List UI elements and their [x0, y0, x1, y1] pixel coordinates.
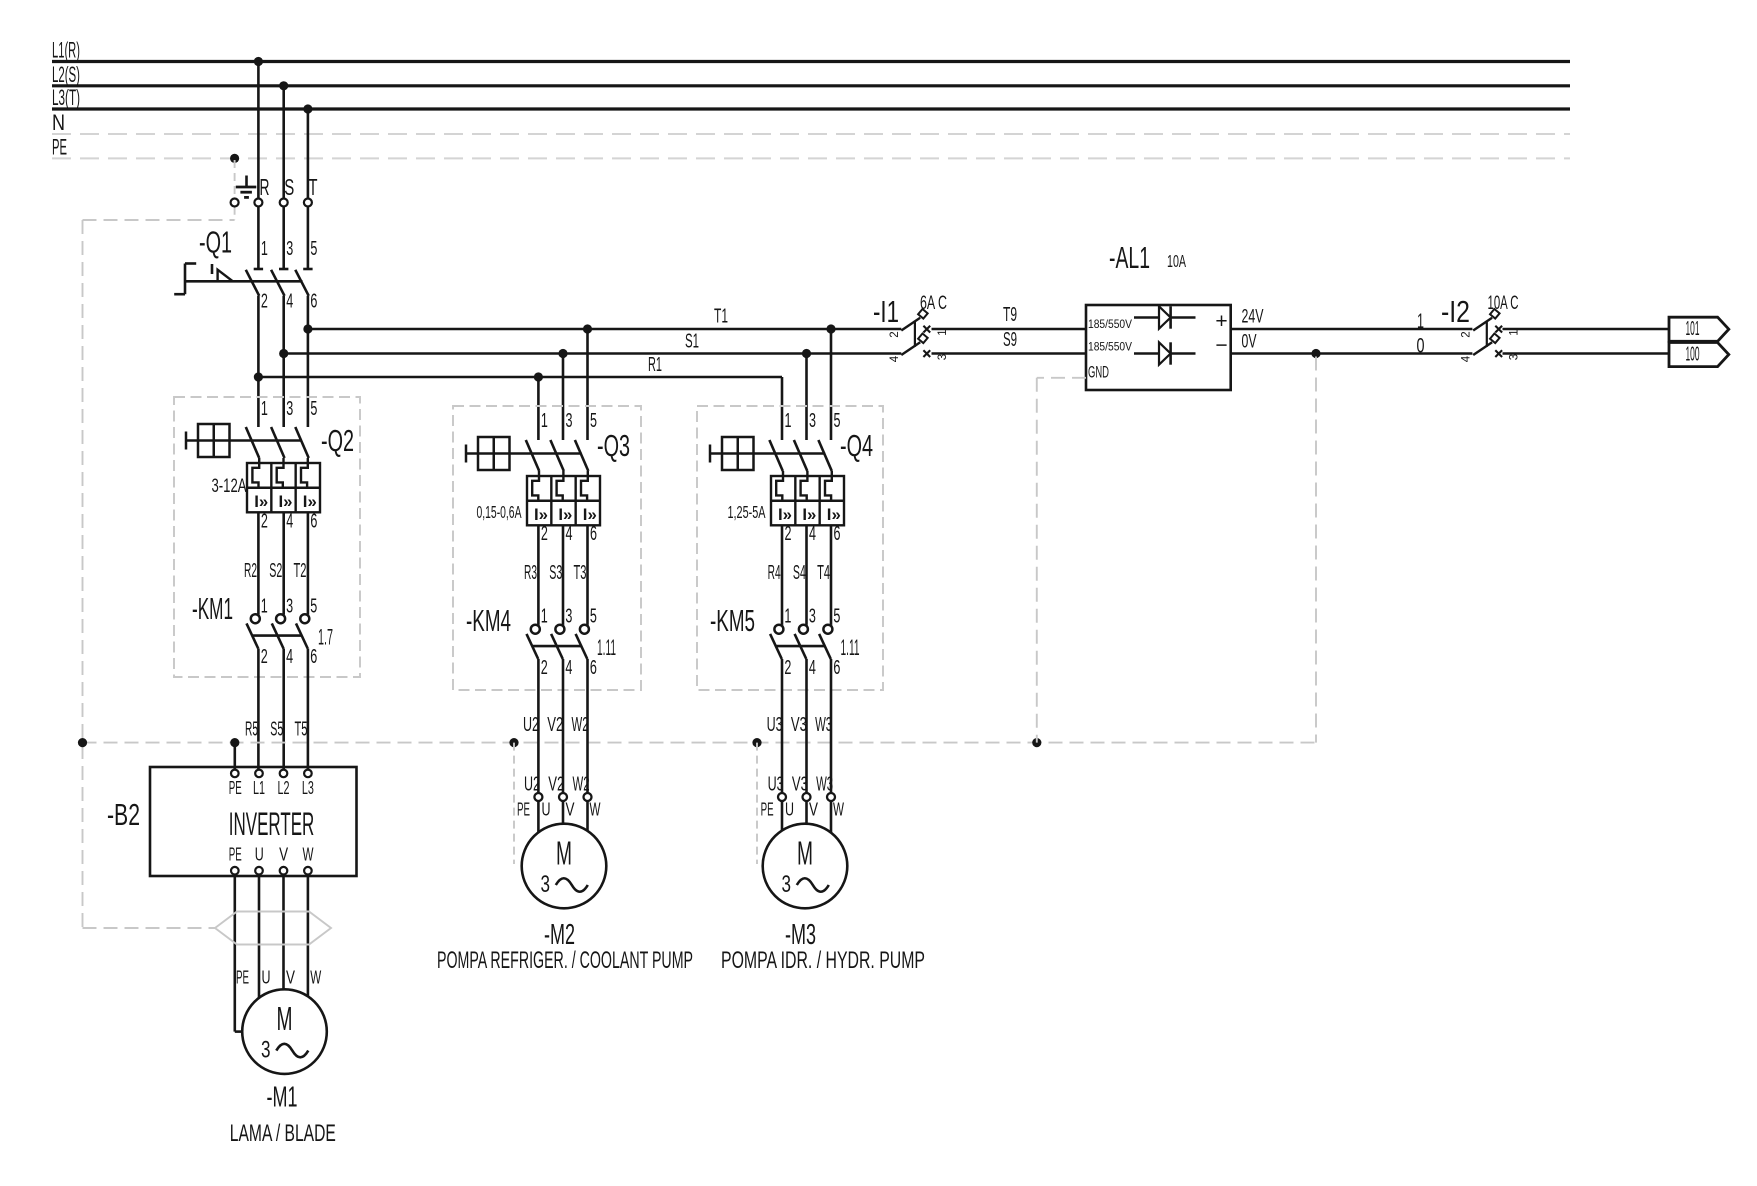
svg-text:1: 1 — [541, 606, 548, 628]
node T1 — [303, 324, 312, 333]
wire 24V — [1231, 307, 1473, 334]
breaker Q1 handle — [174, 264, 196, 295]
svg-text:I»: I» — [778, 505, 792, 524]
svg-text:U3: U3 — [767, 714, 783, 736]
svg-text:L3(T): L3(T) — [52, 85, 80, 110]
wire Q1.4 down — [282, 296, 285, 427]
breaker Q2 actuator link — [186, 439, 302, 441]
contactor KM5 pole 1 — [770, 625, 783, 659]
svg-text:3-12A: 3-12A — [212, 476, 247, 497]
dashed enclosure Q4 group — [697, 406, 883, 690]
power supply AL1 label — [1109, 240, 1186, 275]
breaker Q3 thermal overload block — [527, 476, 600, 525]
terminal S — [280, 174, 295, 207]
node PE left border — [78, 738, 87, 747]
svg-text:I»: I» — [303, 492, 317, 511]
svg-text:L3: L3 — [302, 778, 314, 798]
wire M3 V below — [805, 801, 808, 823]
svg-text:2: 2 — [261, 646, 268, 668]
ground — [236, 176, 256, 198]
breaker Q3 pole blade 1 — [526, 440, 539, 471]
switch I2 pole 2 — [1473, 334, 1502, 357]
breaker Q1 actuator link — [185, 280, 303, 283]
motor M1 — [242, 989, 327, 1074]
svg-text:2: 2 — [541, 657, 548, 679]
svg-text:4: 4 — [1461, 355, 1473, 362]
svg-text:V: V — [279, 845, 288, 865]
inverter B2 box — [150, 767, 357, 876]
svg-text:L1: L1 — [253, 778, 265, 798]
M3 terminals — [778, 793, 835, 801]
terminal R — [254, 174, 269, 207]
svg-text:10A: 10A — [1167, 251, 1186, 271]
breaker Q1 pole 2 — [271, 269, 288, 296]
breaker Q1 pin labels 2 4 6 — [261, 291, 318, 313]
breaker Q2 thermal overload block — [247, 463, 320, 512]
breaker Q4 heater element 3 — [825, 471, 832, 501]
svg-text:I»: I» — [558, 505, 572, 524]
switch I2 pole 1 — [1473, 309, 1502, 332]
contactor KM1 pole 1 — [247, 614, 260, 648]
node PE tap — [230, 154, 239, 163]
motor M3 — [763, 824, 848, 909]
svg-text:-KM1: -KM1 — [192, 591, 233, 626]
node PE M2 — [509, 738, 518, 747]
svg-text:V: V — [809, 800, 818, 820]
svg-text:24V: 24V — [1242, 307, 1264, 328]
svg-text:2: 2 — [785, 523, 792, 545]
svg-text:V2: V2 — [547, 714, 563, 736]
wire V3 — [791, 659, 808, 796]
wire Q1.6 down — [307, 296, 310, 427]
svg-text:0V: 0V — [1242, 332, 1257, 353]
cable shield symbol — [215, 912, 331, 945]
svg-text:U2: U2 — [523, 714, 539, 736]
svg-text:U: U — [785, 800, 794, 820]
svg-text:PE: PE — [229, 778, 242, 798]
breaker Q4 heater element 1 — [776, 471, 783, 501]
svg-text:I»: I» — [254, 492, 268, 511]
node PE AL1 — [1032, 738, 1041, 747]
svg-text:5: 5 — [310, 398, 317, 420]
breaker Q4 thermal overload block — [771, 476, 844, 525]
bus L3(T) — [52, 85, 1570, 110]
svg-text:3: 3 — [261, 1037, 271, 1064]
diode D1 — [1134, 306, 1196, 328]
breaker Q1 pole 1 — [246, 269, 263, 296]
breaker Q4 pin labels 2 4 6 — [785, 523, 841, 545]
breaker Q1 pin labels 1 3 5 — [261, 238, 318, 260]
wire R drop — [257, 62, 260, 270]
svg-text:W2: W2 — [572, 714, 589, 736]
svg-text:5: 5 — [310, 238, 317, 260]
contactor KM5 pole 2 — [795, 625, 808, 659]
wire R3 — [524, 525, 538, 625]
contactor KM5 pin labels 2 4 6 — [784, 657, 840, 679]
svg-text:1.11: 1.11 — [841, 635, 860, 660]
node L2 tap — [279, 81, 288, 90]
wire Q3.5 drop — [586, 329, 589, 440]
svg-text:3: 3 — [565, 606, 572, 628]
svg-text:I»: I» — [534, 505, 548, 524]
wire U3 — [767, 659, 784, 796]
wire PE spine dashed — [83, 742, 1317, 744]
svg-text:2: 2 — [889, 331, 901, 337]
svg-text:3: 3 — [286, 595, 293, 617]
svg-text:V: V — [566, 800, 575, 820]
svg-text:6: 6 — [590, 523, 597, 545]
svg-text:-KM5: -KM5 — [710, 603, 755, 638]
wire M3 PE dashed — [756, 743, 758, 864]
AL1 polarity labels — [1215, 310, 1227, 357]
wire Q3.3 drop — [562, 354, 565, 441]
breaker Q2 pole blade 1 — [246, 427, 259, 458]
wire I2 to arrow 100 — [1503, 352, 1670, 355]
wire T4 — [817, 525, 831, 625]
wire T drop — [307, 109, 310, 269]
wire W3 — [815, 659, 833, 796]
wire R4 — [768, 525, 782, 625]
svg-text:1: 1 — [261, 595, 268, 617]
svg-text:T3: T3 — [574, 562, 587, 584]
svg-text:T4: T4 — [817, 562, 830, 584]
svg-text:S9: S9 — [1003, 329, 1017, 351]
motor M2 — [522, 824, 607, 909]
svg-text:PE: PE — [52, 134, 67, 159]
svg-text:V3: V3 — [791, 714, 807, 736]
svg-text:-B2: -B2 — [107, 797, 140, 832]
power supply AL1 box — [1086, 305, 1231, 390]
M2 terminal labels PE U V W — [517, 800, 601, 820]
node PE M3 — [752, 738, 761, 747]
breaker Q4 pole blade 2 — [794, 440, 807, 471]
node Q4.5 tap — [826, 324, 835, 333]
svg-text:S3: S3 — [549, 562, 562, 584]
wire S drop — [282, 86, 285, 269]
breaker Q4 handle box — [710, 437, 754, 470]
contactor KM4 pole 2 — [551, 625, 564, 659]
breaker Q2 pole blade 2 — [271, 427, 284, 458]
svg-text:V: V — [286, 968, 295, 988]
breaker Q3 heater element 2 — [557, 471, 564, 501]
breaker Q3 pin labels 1 3 5 — [541, 410, 597, 432]
node L3 tap — [303, 104, 312, 113]
svg-text:3: 3 — [782, 871, 792, 898]
svg-text:-AL1: -AL1 — [1109, 240, 1150, 275]
svg-text:1: 1 — [1417, 310, 1424, 333]
M1 wire labels PE U V W — [236, 968, 321, 988]
node Q3.3 tap — [558, 349, 567, 358]
breaker Q3 pole blade 2 — [550, 440, 563, 471]
svg-text:1,25-5A: 1,25-5A — [728, 502, 766, 522]
svg-text:POMPA IDR. / HYDR. PUMP: POMPA IDR. / HYDR. PUMP — [721, 947, 925, 974]
breaker Q4 actuator link — [710, 452, 825, 454]
svg-text:1.11: 1.11 — [597, 635, 616, 660]
svg-text:5: 5 — [833, 606, 840, 628]
switch I1 pole 2 — [901, 334, 930, 357]
wire PE dashed left border down — [82, 220, 84, 928]
wire M2 V below — [562, 801, 565, 823]
svg-text:PE: PE — [229, 845, 242, 865]
wire M1 PE — [235, 875, 243, 1032]
svg-text:6: 6 — [590, 657, 597, 679]
svg-text:2: 2 — [261, 291, 268, 313]
switch I1 mechanical link — [914, 322, 916, 347]
switch I1 pole numbers — [889, 329, 949, 362]
breaker Q4 pole blade 3 — [818, 440, 831, 471]
node Q3.1 tap — [534, 372, 543, 381]
breaker Q3 heater element 3 — [581, 471, 588, 501]
svg-text:S: S — [284, 174, 294, 200]
svg-text:2: 2 — [1461, 331, 1473, 337]
wire S9 — [932, 329, 1087, 354]
switch I1 pole 1 — [901, 309, 930, 332]
contactor KM4 pin labels 1 3 5 — [541, 606, 597, 628]
svg-text:I»: I» — [279, 492, 293, 511]
wire M2 W below — [586, 801, 589, 830]
wire S5 — [270, 649, 283, 770]
svg-text:4: 4 — [566, 523, 573, 545]
node L1 tap — [254, 57, 263, 66]
svg-text:−: − — [1215, 334, 1227, 357]
wire net R1 — [258, 354, 782, 377]
svg-text:3: 3 — [809, 410, 816, 432]
svg-text:-Q4: -Q4 — [840, 428, 873, 463]
switch I2 mechanical link — [1486, 322, 1488, 347]
svg-text:4: 4 — [286, 646, 293, 668]
wire M1 W — [307, 875, 310, 997]
wire Q3.1 drop — [537, 377, 540, 440]
svg-text:M: M — [277, 1000, 293, 1037]
svg-text:LAMA / BLADE: LAMA / BLADE — [230, 1120, 336, 1147]
svg-text:R5: R5 — [245, 719, 258, 741]
svg-text:3: 3 — [286, 238, 293, 260]
svg-text:N: N — [52, 110, 65, 135]
svg-text:W: W — [833, 800, 844, 820]
wire PE to inverter — [234, 743, 237, 770]
svg-text:4: 4 — [809, 657, 816, 679]
svg-text:1: 1 — [784, 606, 791, 628]
svg-text:R3: R3 — [524, 562, 537, 584]
switch I2 pole numbers — [1461, 329, 1521, 362]
breaker Q1 pole 3 — [295, 269, 312, 296]
contactor KM1 mechanical link — [252, 634, 302, 637]
wire T5 — [295, 649, 308, 770]
svg-text:5: 5 — [590, 606, 597, 628]
wire U2 — [523, 659, 540, 796]
wire M1 U — [258, 875, 261, 998]
svg-text:M: M — [797, 835, 813, 872]
wire R5 — [245, 649, 258, 770]
svg-text:4: 4 — [889, 355, 901, 362]
svg-text:6: 6 — [834, 523, 841, 545]
svg-text:-M1: -M1 — [267, 1082, 298, 1114]
svg-text:I»: I» — [802, 505, 816, 524]
wire T2 — [294, 512, 308, 614]
breaker Q2 heater element 1 — [252, 458, 259, 488]
svg-text:0,15-0,6A: 0,15-0,6A — [477, 502, 522, 522]
svg-text:185/550V: 185/550V — [1088, 317, 1132, 331]
wire PE dashed to shield — [83, 927, 216, 929]
svg-text:4: 4 — [809, 523, 816, 545]
wire V2 — [547, 659, 564, 796]
node R1 — [254, 372, 263, 381]
wire W2 — [572, 659, 590, 796]
breaker Q4 heater element 2 — [801, 471, 808, 501]
svg-text:1.7: 1.7 — [318, 625, 333, 650]
svg-text:0: 0 — [1417, 335, 1425, 358]
svg-text:PE: PE — [236, 968, 249, 988]
svg-text:3: 3 — [541, 871, 551, 898]
node S1 — [279, 349, 288, 358]
terminal T — [304, 174, 318, 207]
svg-text:1: 1 — [541, 410, 548, 432]
svg-text:2: 2 — [541, 523, 548, 545]
node PE inverter — [230, 738, 239, 747]
wire M2 U below — [537, 801, 540, 832]
contactor KM1 pole 3 — [296, 614, 309, 648]
bus N (dashed) — [52, 110, 1570, 135]
svg-text:4: 4 — [286, 511, 293, 533]
svg-text:-Q2: -Q2 — [321, 423, 354, 458]
contactor KM1 pin labels 2 4 6 — [261, 646, 318, 668]
wire Q1.2 down — [257, 296, 260, 427]
wire T9 — [932, 304, 1087, 329]
dashed enclosure Q3 group — [453, 406, 641, 690]
M2 terminals — [534, 793, 591, 801]
wire S4 — [793, 525, 807, 625]
svg-text:2: 2 — [784, 657, 791, 679]
svg-text:R4: R4 — [768, 562, 781, 584]
svg-text:6: 6 — [310, 291, 317, 313]
net arrow 101 — [1669, 317, 1729, 341]
breaker Q3 pole blade 3 — [575, 440, 588, 471]
wire 0V PE dashed drop — [1315, 357, 1317, 743]
svg-text:6: 6 — [310, 511, 317, 533]
svg-text:W: W — [590, 800, 601, 820]
wire net T1 — [308, 306, 901, 330]
svg-text:6: 6 — [833, 657, 840, 679]
svg-text:T: T — [309, 174, 318, 200]
wire S2 — [269, 512, 283, 614]
svg-text:5: 5 — [310, 595, 317, 617]
svg-text:T5: T5 — [295, 719, 308, 741]
svg-text:S1: S1 — [685, 331, 699, 353]
AL1 input rating labels — [1088, 317, 1132, 382]
svg-text:-I2: -I2 — [1441, 294, 1470, 329]
contactor KM4 pole 1 — [527, 625, 540, 659]
svg-text:U: U — [255, 845, 264, 865]
breaker Q2 handle box — [186, 424, 230, 457]
svg-text:-Q3: -Q3 — [597, 428, 630, 463]
breaker Q3 actuator link — [466, 452, 582, 454]
svg-text:4: 4 — [565, 657, 572, 679]
svg-text:100: 100 — [1686, 344, 1700, 366]
svg-text:R1: R1 — [648, 354, 662, 376]
svg-text:3: 3 — [566, 410, 573, 432]
wire S3 — [549, 525, 563, 625]
contactor KM1 pin labels 1 3 5 — [261, 595, 318, 617]
svg-text:R: R — [260, 174, 270, 200]
wire Q4.1 drop — [781, 377, 784, 440]
node 0V PE bond — [1311, 349, 1320, 358]
bus PE (dashed) — [52, 134, 1570, 159]
wire AL1 GND dashed — [1037, 378, 1086, 743]
breaker Q2 pole blade 3 — [295, 427, 308, 458]
wire M3 U below — [781, 801, 784, 830]
breaker Q3 heater element 1 — [532, 471, 539, 501]
svg-text:L2: L2 — [278, 778, 290, 798]
inverter input terminals PE L1 L2 L3 — [229, 770, 314, 798]
contactor KM1 pole 2 — [272, 614, 285, 648]
wire Q4.3 drop — [805, 354, 808, 441]
node Q3.5 tap — [583, 324, 592, 333]
net arrow 100 — [1669, 343, 1729, 367]
svg-text:S2: S2 — [269, 560, 282, 582]
svg-text:T2: T2 — [294, 560, 307, 582]
contactor KM5 pole 3 — [819, 625, 832, 659]
svg-text:I»: I» — [827, 505, 841, 524]
contactor KM4 pole 3 — [576, 625, 589, 659]
breaker Q3 handle box — [466, 437, 510, 470]
wire PE dashed to left border — [83, 219, 235, 221]
terminal PE — [231, 199, 239, 207]
svg-text:L1(R): L1(R) — [52, 38, 80, 63]
wire M2 PE dashed — [513, 743, 515, 864]
svg-text:I»: I» — [583, 505, 597, 524]
wire net S1 — [284, 331, 902, 354]
svg-text:L2(S): L2(S) — [52, 62, 80, 87]
svg-text:1: 1 — [261, 398, 268, 420]
svg-text:PE: PE — [761, 800, 774, 820]
svg-text:W: W — [303, 845, 314, 865]
diode D2 — [1134, 342, 1196, 364]
contactor KM4 pin labels 2 4 6 — [541, 657, 597, 679]
svg-text:PE: PE — [517, 800, 530, 820]
wire I2 to arrow 101 — [1503, 328, 1670, 331]
bus L1(R) — [52, 38, 1570, 63]
svg-text:T9: T9 — [1003, 304, 1017, 326]
wire 0V — [1231, 332, 1473, 358]
svg-text:1: 1 — [785, 410, 792, 432]
wire Q4.5 drop — [830, 329, 833, 440]
dashed enclosure Q2 group — [174, 397, 360, 677]
svg-text:INVERTER: INVERTER — [229, 806, 314, 842]
wire PE dashed drop — [234, 160, 236, 220]
svg-text:T1: T1 — [714, 306, 728, 328]
svg-text:185/550V: 185/550V — [1088, 340, 1132, 354]
svg-text:M: M — [556, 835, 572, 872]
breaker Q4 pole blade 1 — [769, 440, 782, 471]
svg-text:R2: R2 — [244, 560, 257, 582]
svg-text:S5: S5 — [270, 719, 283, 741]
breaker Q4 pin labels 1 3 5 — [785, 410, 841, 432]
breaker Q2 pin labels 2 4 6 — [261, 511, 318, 533]
svg-text:+: + — [1215, 310, 1227, 333]
svg-text:1: 1 — [261, 238, 268, 260]
contactor KM5 pin labels 1 3 5 — [784, 606, 840, 628]
M3 terminal labels PE U V W — [761, 800, 844, 820]
svg-text:W: W — [310, 968, 321, 988]
breaker Q3 pin labels 2 4 6 — [541, 523, 597, 545]
bus L2(S) — [52, 62, 1570, 87]
wire R2 — [244, 512, 258, 614]
breaker Q2 heater element 3 — [301, 458, 308, 488]
node Q4.3 tap — [802, 349, 811, 358]
svg-text:GND: GND — [1088, 363, 1109, 382]
svg-text:4: 4 — [286, 291, 293, 313]
svg-text:3: 3 — [809, 606, 816, 628]
